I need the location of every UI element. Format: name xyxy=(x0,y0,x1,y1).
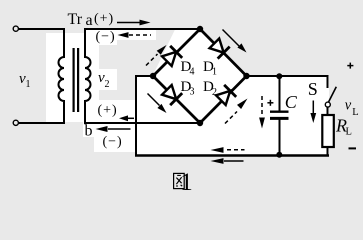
wire resistor to rail xyxy=(327,147,329,156)
wire switch to resistor xyxy=(327,107,329,115)
wire b to bridge bottom xyxy=(84,122,200,124)
arrow dashed (negative half) at D2 xyxy=(225,112,237,124)
arrow solid right (positive half-cycle, top) xyxy=(117,22,141,24)
svg-text:1: 1 xyxy=(212,67,217,78)
arrow solid (positive half) at D1 xyxy=(223,30,240,47)
bridge diamond wires xyxy=(153,29,200,76)
svg-text:(−): (−) xyxy=(103,135,123,150)
arrow solid down at load xyxy=(312,101,314,116)
wire bridge left to bottom rail (elbow) xyxy=(135,75,153,77)
capacitor C plates xyxy=(270,110,289,112)
diode D1 xyxy=(210,39,230,59)
svg-text:(+): (+) xyxy=(98,103,118,118)
junction node at capacitor bottom xyxy=(276,152,282,158)
svg-text:Tr: Tr xyxy=(68,11,83,28)
capacitor C wires xyxy=(279,76,281,111)
diode D3 xyxy=(162,85,182,105)
bottom rail xyxy=(135,154,329,157)
arrow dashed (negative half) at D4 xyxy=(146,54,158,66)
svg-text:2: 2 xyxy=(212,87,217,98)
svg-text:v: v xyxy=(345,98,352,114)
wire bridge right to switch corner xyxy=(247,75,329,77)
svg-text:L: L xyxy=(352,107,358,118)
terminal (primary top) xyxy=(13,26,18,31)
label + output xyxy=(347,65,353,67)
diode D4 xyxy=(162,46,182,66)
svg-text:3: 3 xyxy=(190,87,195,98)
node top (a side) xyxy=(197,26,203,32)
transformer core xyxy=(72,48,74,112)
junction node at capacitor top xyxy=(276,73,282,79)
arrow dashed left above rail xyxy=(227,149,245,151)
switch S blade xyxy=(328,87,337,104)
resistor RL xyxy=(322,115,334,147)
node right (plus) xyxy=(243,73,249,79)
transformer primary winding xyxy=(59,29,65,123)
diode D2 xyxy=(216,85,236,105)
arrow dashed down at capacitor xyxy=(261,96,263,117)
svg-text:a: a xyxy=(86,12,93,29)
node left (minus) xyxy=(150,73,156,79)
switch S pivot circle xyxy=(325,102,330,107)
svg-text:1: 1 xyxy=(180,169,193,196)
node bottom (b side) xyxy=(197,120,203,126)
label - output xyxy=(349,147,357,149)
transformer secondary winding xyxy=(85,29,91,123)
arrow dashed left (negative half-cycle, top) xyxy=(129,34,151,36)
arrow solid (positive half) at D3 xyxy=(148,94,160,106)
arrow solid left at b xyxy=(108,128,131,130)
wire primary bottom xyxy=(19,122,65,124)
node a / wire a to bridge top xyxy=(84,28,200,30)
svg-text:(−): (−) xyxy=(96,30,116,45)
svg-text:C: C xyxy=(285,92,298,112)
svg-text:2: 2 xyxy=(105,79,110,90)
switch S fixed wire stub xyxy=(327,75,329,88)
caption glyph tu (figure) xyxy=(174,173,185,188)
svg-text:S: S xyxy=(308,79,318,99)
white backing panels xyxy=(46,28,329,156)
svg-text:L: L xyxy=(346,127,352,138)
svg-text:1: 1 xyxy=(26,79,31,90)
capacitor plus sign xyxy=(267,102,273,104)
svg-text:(+): (+) xyxy=(94,12,114,27)
svg-text:b: b xyxy=(85,123,93,140)
arrow solid left below rail xyxy=(224,160,244,162)
terminal (primary bottom) xyxy=(13,120,18,125)
svg-text:4: 4 xyxy=(190,67,195,78)
arrow solid left at (+) bottom xyxy=(127,117,134,119)
wire primary top xyxy=(19,28,65,30)
